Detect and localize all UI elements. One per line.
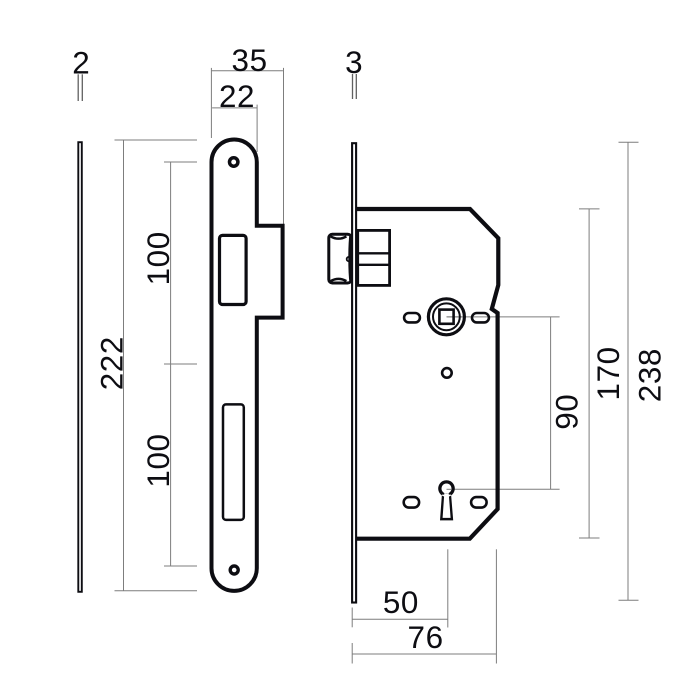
svg-text:90: 90: [550, 394, 585, 430]
svg-text:170: 170: [591, 346, 626, 400]
svg-text:238: 238: [633, 348, 668, 402]
svg-text:100: 100: [141, 231, 176, 285]
svg-text:222: 222: [95, 336, 130, 390]
svg-text:2: 2: [72, 45, 90, 80]
svg-text:50: 50: [383, 585, 419, 620]
svg-text:35: 35: [232, 43, 268, 78]
svg-text:3: 3: [345, 45, 363, 80]
svg-text:22: 22: [219, 79, 255, 114]
svg-text:76: 76: [408, 620, 444, 655]
svg-text:100: 100: [141, 433, 176, 487]
